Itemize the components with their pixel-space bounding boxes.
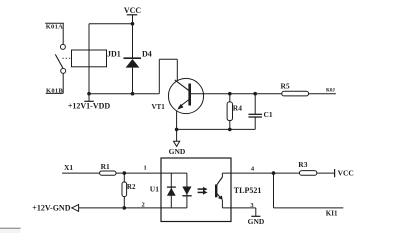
wire LED left branch [170,173,172,208]
junction VCC node [131,22,135,26]
ground GND (pin 3) [248,216,265,226]
power tap +12V1-VDD [68,94,111,111]
svg-text:R4: R4 [233,104,242,113]
svg-text:VCC: VCC [338,169,354,178]
wire down through relay JD1 to rail [88,24,90,94]
terminal K01B [46,87,64,94]
capacitor C1 [249,94,273,130]
svg-text:KI1: KI1 [326,209,338,217]
junction emitter node [175,128,179,132]
wire LED loop bottom [161,207,187,209]
junction relay bottom node [87,92,91,96]
terminal K01A [45,23,64,44]
LED diode (up, left branch) [167,187,176,196]
svg-text:X1: X1 [64,163,73,172]
svg-text:K0J: K0J [326,89,335,94]
wire pin 3 to ground [222,208,255,216]
svg-text:C1: C1 [264,110,273,119]
junction R4 top node [228,92,232,96]
svg-text:U1: U1 [150,184,159,193]
svg-text:K01A: K01A [46,24,63,31]
resistor R5 [281,82,309,96]
diode D4 (flyback) [124,24,152,94]
switch contact circle (bottom) [61,68,66,73]
optocoupler U1 TLP521 body [150,158,262,222]
wire R1 to optocoupler pin 1 [116,172,161,174]
switch contact circle (top) [60,44,65,49]
transistor VT1 (NPN) [152,78,204,113]
VCC power symbol (top) [124,6,142,24]
svg-text:R3: R3 [298,160,307,169]
light arrows [198,187,208,195]
svg-text:+12V-GND: +12V-GND [32,203,70,212]
wire to K01B [62,73,64,93]
wire collector route (rail up/over to VT1 collector) [159,59,177,93]
svg-text:GND: GND [169,147,186,156]
wire +12V-GND to pin 2 [79,207,161,209]
junction R4 bottom node [228,128,232,132]
decorative corner fragment [0,228,21,233]
resistor R2 [122,173,136,208]
svg-text:1: 1 [144,165,147,172]
wire rail from relay to collector riser [89,93,159,95]
junction C1 top node [253,92,257,96]
svg-text:GND: GND [248,217,265,226]
mechanical link (dashed) to relay [63,57,72,59]
svg-text:D4: D4 [142,50,152,59]
resistor R3 [298,160,317,175]
wire ground rail (emitter to C1) [177,128,256,130]
svg-text:R1: R1 [101,162,110,171]
junction pin4 node [272,171,276,175]
VCC tap (right) [335,169,354,178]
switch blade [55,54,63,68]
svg-text:+12V1-VDD: +12V1-VDD [68,102,111,111]
svg-text:TLP521: TLP521 [234,186,262,195]
wire pin4 node down to KI1 [274,173,344,208]
wire LED right branch [186,173,188,208]
LED diode (down, right branch) [182,187,191,196]
phototransistor of U1 [216,173,222,208]
resistor R4 [227,94,242,130]
wire VT1 emitter to ground rail [176,111,178,130]
junction R2 top node [123,171,127,175]
wire pin 4 to R3 [222,172,299,174]
wire R3 to VCC [317,172,335,174]
power tap +12V-GND with arrow [32,203,78,212]
ground GND (top circuit) [169,129,186,156]
svg-text:VCC: VCC [124,6,142,15]
svg-text:R2: R2 [127,183,136,191]
junction R2 bottom node [123,206,127,210]
svg-text:R5: R5 [281,82,290,91]
junction D4 bottom node [131,92,135,96]
wire VCC rail to relay top [89,23,133,25]
wire LED loop top [161,172,187,174]
svg-text:VT1: VT1 [152,103,166,111]
wire X1 to R1 [62,172,100,174]
resistor R1 [100,162,116,175]
svg-text:JD1: JD1 [107,50,121,59]
relay coil JD1 [72,50,121,67]
wire VT1 base line to K0J [191,93,336,95]
